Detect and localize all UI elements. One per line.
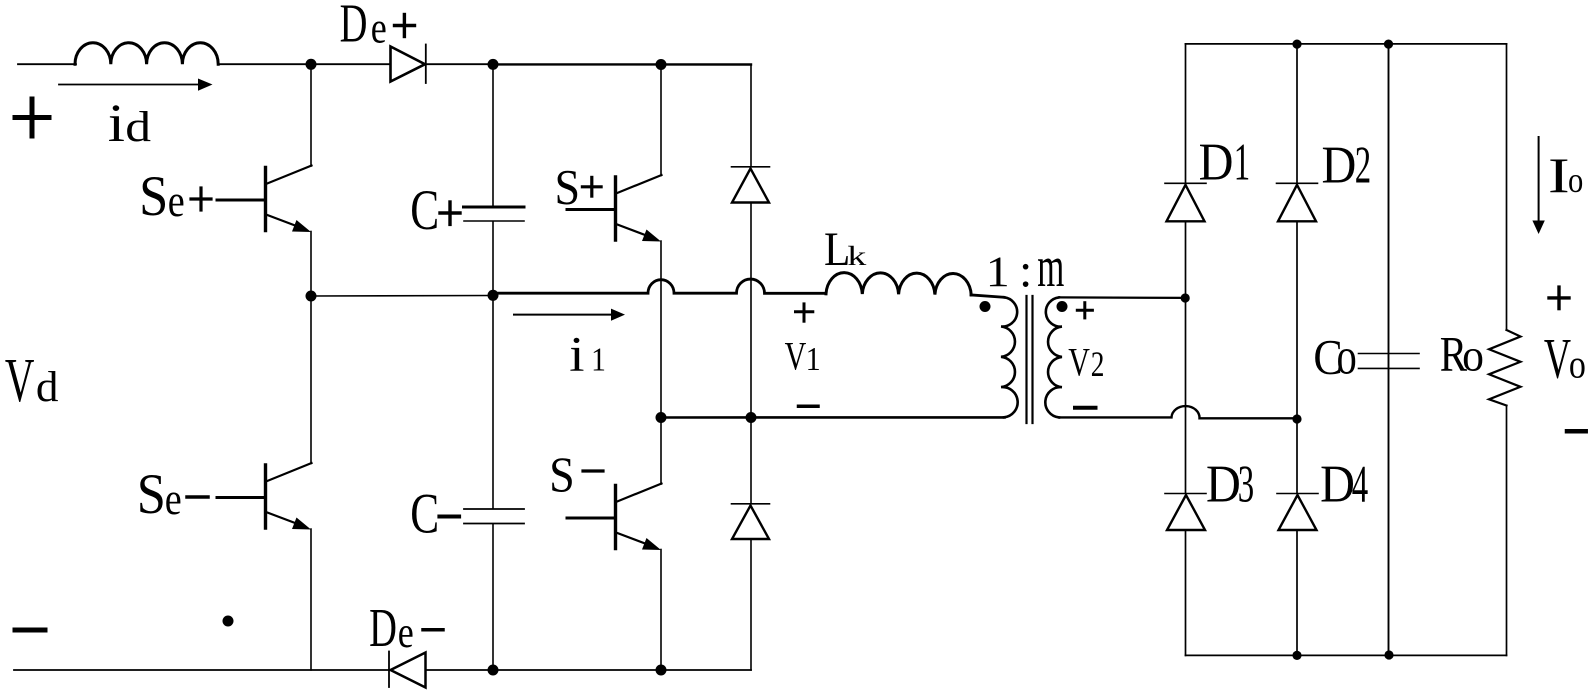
arrow i1 current — [514, 309, 625, 321]
node junction dot top rail x=1388 — [1384, 40, 1393, 49]
label V1 — [785, 333, 821, 378]
svg-text:V: V — [1544, 328, 1571, 391]
transformer core lines — [1027, 296, 1033, 423]
node junction dot bottom rail x=493 — [488, 665, 499, 676]
svg-text:I: I — [1548, 147, 1570, 203]
svg-text:1: 1 — [591, 341, 606, 378]
svg-text:e: e — [165, 475, 182, 525]
wire: leg x=1297 D4 to bottom — [1296, 530, 1298, 655]
node junction dot top rail x=311 — [306, 59, 317, 70]
svg-text:4: 4 — [1352, 455, 1368, 514]
node junction dot lower rail x=661 — [656, 412, 667, 423]
wire: mid rail thick with humps and Lk inductor — [493, 279, 826, 293]
wire: leg x=1297 top to D2 — [1296, 44, 1298, 183]
svg-text:o: o — [1337, 328, 1357, 386]
wire: leg x=1297 D2 to D4 — [1296, 222, 1298, 494]
label Io — [1548, 147, 1583, 203]
label Lk — [824, 222, 867, 276]
wire: vertical x=751 node to lower diode — [750, 418, 752, 504]
svg-text:V: V — [5, 347, 35, 415]
label - primary V1 — [799, 405, 819, 409]
svg-text:o: o — [1462, 330, 1484, 381]
label Vo — [1544, 328, 1586, 391]
wire: rectifier top rail — [1186, 43, 1507, 45]
wire: leg x=1388.5 with Co across — [1388, 44, 1390, 655]
node junction dot top rail x=661 — [656, 59, 667, 70]
svg-text:D: D — [369, 598, 397, 658]
svg-text:3: 3 — [1238, 455, 1254, 514]
wire: vertical x=751 diode to lower node — [750, 204, 752, 418]
svg-text:D: D — [1322, 136, 1357, 195]
wire: leg x=1185.5 D1 to D3 — [1185, 222, 1187, 494]
resistor Ro zigzag — [1489, 330, 1521, 406]
svg-text:d: d — [36, 363, 59, 411]
svg-text:S: S — [139, 164, 168, 227]
svg-text:1: 1 — [1234, 132, 1250, 191]
node junction dot mid rail x=493 — [488, 290, 499, 301]
label - output — [1567, 429, 1586, 434]
label C- — [410, 482, 459, 545]
label - input terminal — [15, 628, 45, 633]
wire: secondary top to rectifier node — [1059, 296, 1186, 299]
label De- — [369, 598, 443, 658]
wire: Lk to transformer primary — [971, 295, 1004, 297]
diode D2 — [1277, 183, 1318, 221]
node junction dot secondary bottom x=1297 — [1292, 414, 1301, 423]
wire: vertical x=493 C- to bottom rail — [492, 525, 494, 671]
wire: bottom rail left segment — [14, 669, 389, 671]
label Vd — [5, 347, 59, 415]
label D4 — [1320, 454, 1368, 513]
capacitor Co plates — [1359, 354, 1420, 369]
wire: vertical x=493 mid node to C- — [492, 296, 494, 508]
diode D1 — [1165, 183, 1206, 221]
wire: leg x=1185.5 top to D1 — [1185, 44, 1187, 183]
label V2 — [1068, 339, 1104, 384]
svg-text:V: V — [1068, 339, 1090, 384]
transistor Se- — [217, 463, 312, 530]
node junction dot top rail x=493 — [488, 59, 499, 70]
svg-text:k: k — [847, 242, 867, 272]
svg-text:S: S — [555, 160, 581, 215]
wire: Se+ emitter vertical — [310, 232, 312, 297]
wire: leg x=1506.5 top to Ro — [1506, 44, 1508, 330]
wire: Se- emitter vertical to bottom rail — [310, 529, 312, 670]
diode De+ — [391, 45, 426, 84]
label + output — [1549, 287, 1569, 309]
svg-text:o: o — [1569, 343, 1586, 387]
wire: lower mid rail 661 to primary bottom — [661, 416, 1005, 419]
svg-text:D: D — [1206, 454, 1241, 513]
wire: mid rail 311 to 493 — [311, 295, 493, 298]
wire: top rail thick segment to right corner — [493, 63, 751, 65]
label i1 — [569, 327, 606, 382]
label Se+ — [139, 164, 211, 227]
svg-text:m: m — [1037, 235, 1064, 299]
svg-text:2: 2 — [1091, 344, 1105, 383]
label S- — [549, 447, 603, 502]
wire: top rail inductor to De+ — [218, 63, 390, 65]
wire: leg x=1506.5 Ro to bottom — [1506, 406, 1508, 656]
svg-text::: : — [1019, 245, 1032, 298]
node junction dot top rail x=1297 — [1292, 40, 1301, 49]
transistor S+ — [567, 175, 662, 242]
node junction dot bottom rail x=661 — [656, 665, 667, 676]
wire: vertical x=493 C+ to mid node — [492, 222, 494, 296]
svg-text:e: e — [371, 3, 387, 52]
svg-text:S: S — [549, 447, 575, 502]
svg-text:D: D — [1199, 132, 1234, 191]
wire: vertical x=493 top to C+ — [492, 64, 494, 205]
wire: S- collector vertical — [660, 418, 662, 485]
node junction dot bottom rail x=1297 — [1292, 651, 1301, 660]
node junction dot mid rail x=311 — [306, 291, 317, 302]
wire: vertical x=751 top corner to diode — [750, 65, 752, 167]
wire: Se+ collector vertical — [310, 64, 312, 166]
svg-text:C: C — [410, 178, 439, 241]
svg-text:1: 1 — [986, 247, 1010, 296]
transformer T1 primary winding — [1001, 297, 1018, 417]
inductor Lk — [826, 273, 971, 295]
label S+ — [555, 160, 602, 215]
label + input terminal — [15, 99, 49, 136]
svg-text:1: 1 — [806, 341, 821, 378]
svg-text:V: V — [785, 333, 807, 378]
capacitor C- — [464, 509, 524, 524]
wire: top rail left segment — [18, 63, 76, 65]
wire: S+ emitter vertical through hump down to lower node — [660, 241, 662, 418]
transistor S- — [567, 484, 662, 551]
svg-text:d: d — [125, 104, 151, 151]
arrow id current — [59, 79, 213, 91]
inductor input (id feed) — [75, 43, 218, 65]
wire: rectifier bottom rail — [1186, 654, 1507, 656]
label 1:m turns ratio — [986, 235, 1064, 299]
label De+ — [340, 0, 415, 54]
svg-text:D: D — [1320, 454, 1355, 513]
svg-text:2: 2 — [1355, 136, 1371, 195]
wire: bottom rail De- to right corner — [426, 669, 751, 671]
transformer T1 secondary winding — [1045, 297, 1062, 417]
label C+ — [410, 178, 460, 241]
label Ro — [1440, 326, 1484, 382]
transistor Se+ — [217, 166, 312, 233]
wire: secondary bottom with hump to D2 leg — [1059, 406, 1297, 418]
wire: S+ collector vertical — [660, 65, 662, 176]
diode D4 — [1277, 494, 1318, 531]
label id — [108, 93, 152, 153]
svg-text:C: C — [410, 482, 439, 545]
diode freewheel lower — [732, 504, 770, 539]
wire: leg x=1185.5 D3 to bottom — [1185, 530, 1187, 655]
svg-text:e: e — [398, 608, 414, 657]
svg-text:i: i — [569, 327, 584, 382]
label D2 — [1322, 136, 1372, 195]
node junction dot bottom rail x=1389 — [1384, 650, 1393, 659]
transformer phase dot secondary — [1057, 301, 1068, 312]
svg-text:D: D — [340, 0, 368, 54]
label D3 — [1206, 454, 1254, 513]
svg-text:S: S — [137, 462, 166, 525]
polarity dot near Se- — [223, 616, 234, 627]
svg-text:i: i — [108, 93, 125, 153]
wire: vertical x=751 lower diode to bottom rail — [750, 540, 752, 671]
node junction dot lower rail x=751 — [746, 412, 757, 423]
label D1 — [1199, 132, 1251, 191]
label + secondary V2 — [1077, 303, 1092, 318]
label Co — [1313, 328, 1356, 386]
node junction dot secondary top x=1185 — [1181, 293, 1190, 302]
diode freewheel upper — [732, 167, 770, 203]
diode D3 — [1165, 494, 1206, 531]
svg-text:o: o — [1568, 161, 1583, 201]
capacitor C+ — [464, 207, 525, 221]
wire: top rail De+ to C+ node — [426, 63, 493, 65]
svg-text:e: e — [168, 177, 185, 227]
label + primary V1 — [796, 304, 813, 321]
wire: S- emitter vertical to bottom rail — [660, 550, 662, 671]
diode De- — [389, 652, 426, 688]
transformer phase dot primary — [980, 301, 991, 312]
label Se- — [137, 462, 208, 525]
label - secondary V2 — [1075, 406, 1096, 410]
arrow Io current — [1532, 137, 1544, 234]
wire: vertical 311 node to Se- collector — [310, 296, 312, 464]
